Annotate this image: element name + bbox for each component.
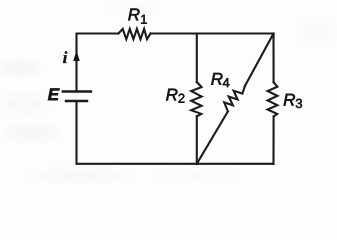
wire top-right segment: [151, 32, 274, 34]
resistor R1: [118, 29, 150, 39]
wire middle lower: [196, 116, 198, 164]
wire left lower: [77, 102, 197, 164]
wire diagonal upper: [245, 34, 274, 87]
label i: [63, 51, 67, 63]
label E: [48, 89, 60, 101]
label R1: [128, 9, 139, 21]
label R3: [284, 94, 295, 106]
battery E: [63, 92, 91, 102]
resistor R4: [224, 86, 245, 111]
resistor R3: [268, 82, 278, 116]
wire bottom right: [197, 163, 274, 165]
wire top-left segment: [77, 34, 119, 91]
label R4: [211, 73, 222, 85]
wire right upper: [272, 34, 274, 83]
current arrow i: [73, 51, 80, 62]
wire middle upper: [196, 34, 198, 83]
resistor R2: [191, 82, 201, 116]
wire diagonal lower: [197, 111, 228, 163]
wire right lower: [272, 117, 274, 164]
label R2: [166, 89, 177, 101]
